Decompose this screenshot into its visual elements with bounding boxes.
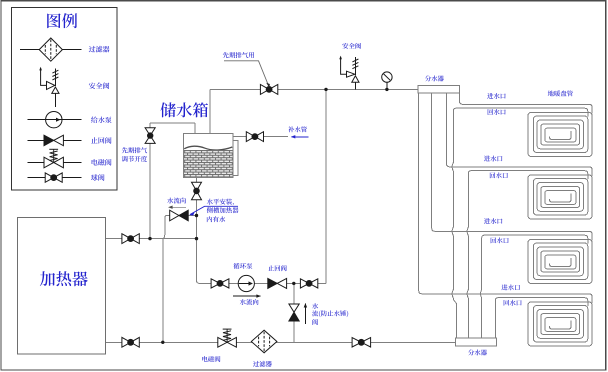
wire supply drop loop4 [419, 93, 422, 294]
floor loop 2 heating coil [528, 175, 592, 219]
wire left riser [149, 123, 151, 239]
floor loop 4 heating coil [528, 302, 592, 346]
legend solenoid valve label [92, 159, 112, 166]
ball valve tank drain [192, 182, 202, 200]
return manifold bottom [455, 338, 496, 346]
tank water surface wave [184, 146, 232, 150]
wire tank drop and pump feed [197, 178, 327, 284]
legend safety valve stem [54, 93, 56, 107]
floor loop 4 supply line [422, 294, 592, 303]
wire return drop loop2 [467, 171, 471, 339]
wire supply drop loop2 [447, 93, 450, 167]
floor loop 2 supply line [450, 167, 593, 176]
wire return drop loop3 [481, 235, 485, 338]
check valve water hammer [289, 304, 299, 321]
wire check valve branch left [163, 216, 170, 343]
water hammer flow arrow [304, 303, 307, 324]
wire bottom pipe [105, 341, 455, 343]
ball valve pump discharge [300, 279, 317, 288]
label circulation pump [233, 263, 252, 269]
junction check branch bottom [161, 341, 164, 344]
legend safety valve label [89, 82, 109, 89]
label exhaust adj 2 [122, 156, 147, 162]
heater label [40, 271, 88, 286]
wire supply drop loop3 [432, 93, 435, 231]
legend box [11, 8, 117, 190]
legend pump pipe [28, 119, 82, 121]
label inlet loop4 [501, 284, 519, 290]
junction right riser top [324, 88, 327, 91]
label floor coil [548, 90, 573, 96]
legend ball valve pipe [28, 177, 82, 179]
label makeup pipe [288, 126, 307, 132]
circulation pump [238, 275, 254, 291]
junction left riser heater pipe [148, 237, 151, 240]
label safety valve main [342, 43, 361, 49]
legend check valve pipe [28, 139, 82, 141]
ball valve heater return [122, 337, 139, 347]
label hammer 2 [312, 310, 348, 317]
label install note 3 [207, 216, 225, 222]
wire exhaust pipe stub to tank [194, 123, 196, 134]
wire return drop loop4 [495, 298, 498, 339]
legend filter label [89, 46, 110, 53]
legend solenoid valve [44, 149, 63, 168]
filter main [251, 330, 277, 353]
wire right riser [325, 89, 327, 283]
label return loop3 [491, 237, 509, 243]
junction branch [292, 282, 295, 285]
water flow arrow a [168, 206, 186, 209]
wire check branch down [293, 283, 295, 342]
legend filter symbol [39, 38, 62, 61]
wire heater top pipe [105, 238, 196, 240]
floor loop 3 return line [484, 235, 588, 244]
legend ball valve label [91, 174, 104, 181]
floor loop 2 return line [470, 171, 588, 180]
floor loop 3 supply line [435, 231, 592, 240]
wire tank riser [209, 89, 211, 133]
wire supply drop loop1 (manifold right edge) [460, 93, 463, 104]
legend pump label [91, 117, 112, 124]
makeup flow arrow [291, 135, 309, 138]
check valve pump line [268, 278, 287, 288]
legend check valve [44, 135, 63, 146]
wire makeup water line [233, 136, 247, 138]
legend safety valve [39, 67, 59, 94]
wire return drop loop1 [452, 108, 456, 338]
storage tank body [184, 134, 233, 178]
label return manifold [468, 349, 487, 355]
junction tank drop heater pipe [195, 237, 198, 240]
floor loop 3 heating coil [528, 239, 592, 283]
floor loop 1 supply line [463, 104, 593, 113]
leader line install note [190, 206, 238, 214]
pressure gauge [382, 72, 392, 82]
junction check valve tank drop [195, 214, 198, 217]
wire check valve branch right [188, 215, 196, 217]
check valve to heater [170, 210, 189, 221]
label install note 2 [207, 207, 239, 213]
ball valve left riser [145, 128, 155, 144]
floor loop 1 heating coil [528, 112, 592, 156]
label filter main [253, 361, 272, 367]
label supply manifold [425, 75, 444, 81]
ball valve initial exhaust [260, 85, 277, 95]
label water flow b [240, 299, 259, 305]
ball valve heater supply [122, 234, 139, 244]
label return loop4 [504, 300, 522, 306]
gauge stem [386, 82, 388, 89]
tank level gauge bracket [233, 141, 238, 176]
legend title [47, 13, 77, 28]
safety valve main [339, 56, 359, 83]
legend ball valve [45, 173, 62, 182]
legend solenoid valve pipe [28, 162, 82, 164]
wire exhaust pipe horizontal [150, 122, 195, 124]
ball valve pump suction [211, 279, 229, 288]
legend check valve label [91, 137, 111, 144]
wire top pipe [210, 88, 418, 90]
storage tank label [160, 102, 208, 117]
label hammer 3 [312, 319, 318, 325]
label return loop2 [490, 172, 508, 178]
label solenoid valve [202, 356, 220, 362]
legend feed pump [46, 112, 62, 128]
ball valve to manifold [352, 338, 371, 347]
floor loop 4 return line [497, 298, 588, 307]
label hammer 1 [312, 303, 318, 309]
label inlet loop2 [484, 156, 502, 162]
label install note 1 [207, 199, 234, 206]
junction gauge [385, 88, 388, 91]
leader line exhaust valve [224, 61, 269, 86]
label initial exhaust [223, 52, 254, 58]
pump flow arrow [233, 294, 261, 297]
label inlet loop1 [487, 93, 505, 99]
floor loop 1 return line [455, 108, 588, 117]
label water flow a [167, 198, 186, 204]
heater box [17, 218, 105, 355]
label return loop1 [488, 109, 506, 115]
supply manifold top [418, 85, 460, 93]
label inlet loop3 [484, 218, 502, 224]
ball valve makeup water [246, 132, 263, 142]
label exhaust adj 1 [122, 147, 147, 153]
legend filter pipe [20, 49, 82, 51]
label check valve [268, 265, 287, 271]
safety valve stem to pipe [354, 82, 356, 89]
solenoid valve main [218, 329, 237, 347]
